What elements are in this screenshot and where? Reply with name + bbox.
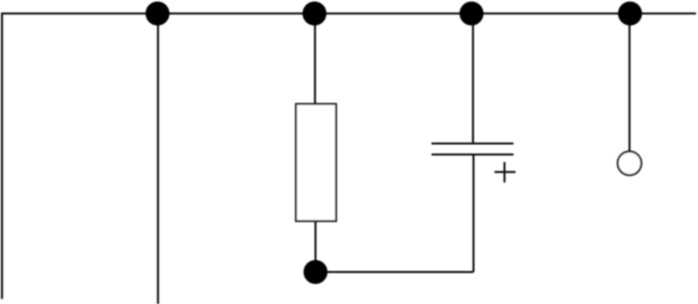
node junction dot 4 [618,2,642,26]
wire capacitor top lead [472,14,474,144]
wire vertical from node 1 to bottom edge [157,14,159,304]
capacitor C1 [432,144,514,155]
node junction dot bottom [304,260,328,284]
wire resistor bottom lead [315,221,317,262]
node junction dot 3 [460,2,484,26]
terminal open circle [618,152,642,176]
wire capacitor bottom lead [473,155,475,273]
wire left vertical [1,14,3,300]
wire bottom horizontal [316,271,474,273]
resistor R1 [296,104,336,221]
wire top bus [1,13,696,15]
node junction dot 2 [303,2,327,26]
wire resistor top lead [314,14,316,105]
node junction dot 1 [146,2,170,26]
wire terminal lead [629,14,631,152]
capacitor plus polarity mark [495,162,516,183]
